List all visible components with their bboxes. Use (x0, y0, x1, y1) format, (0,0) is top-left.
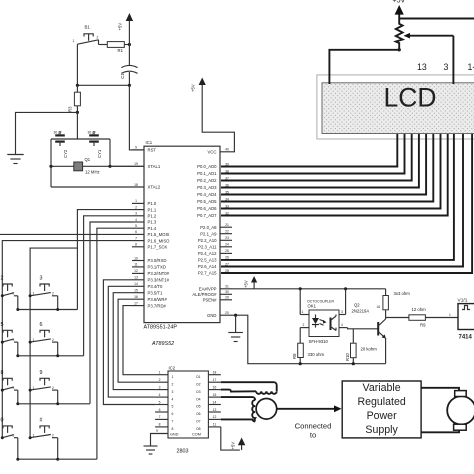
svg-text:P2.1_A9: P2.1_A9 (200, 231, 217, 236)
svg-text:10: 10 (134, 256, 138, 260)
svg-text:14: 14 (213, 400, 217, 404)
svg-text:P1.1: P1.1 (148, 207, 157, 212)
IC1 left pin names (148, 148, 171, 309)
svg-text:1: 1 (33, 433, 35, 437)
svg-text:16: 16 (134, 295, 138, 299)
svg-text:3: 3 (135, 212, 137, 216)
wire R9 to 7414 (425, 317, 458, 319)
wire crystal loop left edge (50, 139, 52, 187)
svg-text:P2.3_A11: P2.3_A11 (198, 245, 217, 250)
svg-text:4: 4 (341, 323, 343, 327)
svg-text:7: 7 (135, 236, 137, 240)
keypad row 2 wire (18, 355, 84, 357)
svg-text:30: 30 (225, 290, 229, 294)
svg-text:9: 9 (40, 370, 43, 376)
svg-text:ALE/PROG#: ALE/PROG# (192, 292, 217, 297)
svg-text:P1.5_MOSI: P1.5_MOSI (148, 232, 170, 237)
svg-text:12: 12 (134, 269, 138, 273)
svg-text:30 pF: 30 pF (88, 131, 96, 135)
svg-text:Variable: Variable (363, 382, 401, 394)
wire P1.3 to keypad row 3 (90, 222, 132, 404)
svg-text:3: 3 (341, 310, 343, 314)
optocoupler OK1 body (307, 299, 339, 344)
svg-text:P0.6_AD6: P0.6_AD6 (197, 206, 217, 211)
resistor R9 12 ohm (409, 307, 426, 328)
button hash (29, 417, 60, 460)
svg-text:XTAL1: XTAL1 (148, 164, 161, 169)
svg-text:OK1: OK1 (308, 304, 317, 309)
wire P1.4 to keypad row 4 (97, 228, 132, 459)
driver IC2 ULN2803 body (168, 366, 208, 455)
svg-text:P3.2/INT0#: P3.2/INT0# (148, 271, 170, 276)
svg-text:5: 5 (172, 405, 174, 409)
svg-text:13: 13 (213, 408, 217, 412)
svg-text:1: 1 (159, 371, 161, 375)
optocoupler pin 3 (339, 289, 346, 315)
wire IC2 out2 to coil L1 right (221, 382, 277, 391)
svg-text:IC1: IC1 (146, 140, 153, 145)
wire P0.4 data bus to LCD (221, 134, 426, 195)
svg-text:11: 11 (213, 423, 217, 427)
switch B1 (73, 25, 99, 45)
wire P0.2 data bus to LCD (221, 134, 412, 181)
wire to ground (16, 112, 78, 154)
svg-text:29: 29 (225, 296, 229, 300)
node crystal right (108, 165, 111, 168)
svg-text:2: 2 (97, 36, 99, 40)
svg-text:31: 31 (225, 285, 229, 289)
node EA rail optocoupler pin1 (299, 287, 302, 290)
svg-text:6: 6 (159, 408, 161, 412)
button 3 (29, 276, 60, 312)
wire Q2 collector to R9 (386, 317, 409, 319)
svg-text:to: to (310, 431, 316, 440)
svg-text:2: 2 (52, 433, 54, 437)
svg-text:0: 0 (1, 417, 4, 423)
wire IC2 out7 to coil L2 bottom (221, 419, 255, 421)
svg-text:Supply: Supply (365, 424, 398, 436)
svg-text:R1: R1 (118, 48, 124, 53)
wire P0.1 data bus to LCD (221, 134, 405, 174)
svg-text:8: 8 (1, 370, 4, 376)
svg-text:1: 1 (33, 292, 35, 296)
svg-text:1: 1 (135, 199, 137, 203)
svg-text:P0.3_AD3: P0.3_AD3 (197, 185, 217, 190)
svg-text:1: 1 (449, 313, 451, 317)
button 9 (29, 370, 60, 406)
crystal Q1 12MHz (74, 157, 100, 175)
IC2 inside pin letters (172, 375, 201, 431)
wire B1 pin2 to R1 (99, 44, 108, 46)
svg-text:7: 7 (172, 420, 174, 424)
svg-text:9: 9 (156, 429, 158, 433)
svg-text:4: 4 (159, 393, 161, 397)
svg-text:P2.4_A12: P2.4_A12 (198, 251, 217, 256)
svg-text:Power: Power (367, 410, 397, 422)
svg-text:P1.0: P1.0 (148, 201, 157, 206)
svg-text:15: 15 (213, 393, 217, 397)
svg-text:O2: O2 (196, 382, 201, 386)
svg-text:R8: R8 (292, 353, 297, 359)
svg-text:2: 2 (13, 386, 15, 390)
svg-text:6: 6 (172, 412, 174, 416)
inductor L1 stepper winding top (256, 391, 277, 394)
wire IC2 out3 to coil L1 left (221, 390, 256, 392)
block Variable Regulated Power Supply (342, 381, 421, 438)
wire GND pin path (232, 315, 386, 364)
node junction R1/C1 (128, 43, 131, 46)
optocoupler phototransistor symbol (331, 315, 337, 331)
wire IC2 out4 to coil L2 top (221, 397, 255, 400)
svg-text:2N2219A: 2N2219A (352, 309, 370, 314)
svg-text:1: 1 (33, 386, 35, 390)
node EA rail optocoupler pin3 (344, 287, 347, 290)
IC 7414 schmitt block V1/1 (458, 298, 474, 341)
svg-text:14: 14 (134, 282, 138, 286)
keypad row 1 wire (18, 309, 78, 311)
svg-text:+5V: +5V (191, 84, 196, 92)
svg-text:O1: O1 (196, 375, 201, 379)
svg-text:11: 11 (134, 263, 138, 267)
svg-text:R3: R3 (68, 106, 73, 112)
node R10 bottom rail (352, 362, 355, 365)
resistor 3x3 ohm (383, 289, 410, 318)
IC2 right pin stubs (208, 375, 220, 427)
motor M2 DC motor body (447, 396, 474, 424)
svg-text:O7: O7 (196, 420, 201, 424)
wire P1.1 to keypad row 1 (77, 210, 132, 310)
inductor L2 stepper winding left (252, 400, 255, 421)
optocoupler pin 2 (300, 323, 309, 343)
wire crystal loop right edge (109, 139, 111, 166)
power +5V arrow top-left (118, 13, 134, 45)
power +5V arrow above potentiometer (393, 0, 406, 19)
motor M1 stepper body (256, 399, 277, 420)
svg-text:8: 8 (159, 423, 161, 427)
capacitor CY1 30pF (88, 131, 102, 159)
svg-text:2803: 2803 (177, 449, 189, 455)
svg-text:5: 5 (135, 224, 137, 228)
svg-text:19: 19 (134, 162, 138, 166)
button 8 (1, 370, 20, 406)
svg-text:P0.1_AD1: P0.1_AD1 (197, 171, 217, 176)
svg-text:16: 16 (377, 305, 381, 309)
IC2 left pin stubs (155, 375, 168, 427)
svg-text:LCD: LCD (383, 83, 436, 113)
svg-text:13: 13 (134, 276, 138, 280)
svg-text:IC2: IC2 (169, 366, 176, 371)
svg-text:25: 25 (225, 249, 229, 253)
svg-text:20: 20 (225, 311, 229, 315)
svg-text:C1: C1 (120, 73, 125, 79)
wire P0.5 data bus to LCD (221, 134, 433, 202)
wire to RST pin (129, 85, 144, 150)
wire P2.0 stub (220, 226, 232, 228)
svg-text:2: 2 (1, 276, 4, 282)
ground GND1 (7, 155, 23, 164)
IC2 left pin numbers (159, 371, 161, 427)
button 0 (1, 417, 20, 460)
ground GND3 (144, 446, 158, 454)
svg-text:7: 7 (159, 415, 161, 419)
wire P3.5 to IC2 pin 3 (113, 293, 155, 390)
svg-text:Regulated: Regulated (357, 396, 405, 408)
svg-text:2: 2 (52, 386, 54, 390)
wire P2.2 stub (220, 239, 232, 241)
wire R3 node to crystal rail (76, 112, 78, 139)
svg-text:21: 21 (225, 223, 229, 227)
svg-text:3: 3 (40, 276, 43, 282)
button 5 (1, 322, 20, 358)
svg-text:P0.7_AD7: P0.7_AD7 (197, 213, 217, 218)
svg-text:P1.6_MISO: P1.6_MISO (148, 238, 171, 243)
svg-text:#: # (40, 417, 43, 423)
wire P2.7 to LCD control (221, 134, 472, 273)
wire supply to motor M2 bottom (421, 430, 459, 432)
svg-text:+5V: +5V (118, 23, 123, 31)
svg-text:2: 2 (52, 292, 54, 296)
LCD module outer frame (317, 75, 474, 139)
wire pot bottom to LCD pin 13 (329, 50, 399, 84)
svg-text:V1/1: V1/1 (458, 298, 468, 304)
button 6 (29, 322, 60, 358)
node R8 bottom rail (299, 362, 302, 365)
svg-text:17: 17 (213, 378, 217, 382)
svg-text:2: 2 (52, 338, 54, 342)
svg-text:5: 5 (159, 400, 161, 404)
svg-text:2: 2 (159, 378, 161, 382)
svg-text:23: 23 (225, 236, 229, 240)
svg-text:COM: COM (192, 433, 201, 437)
svg-text:1: 1 (73, 39, 75, 43)
wire R1 to +5V node (124, 44, 129, 46)
svg-text:P0.0_AD0: P0.0_AD0 (197, 164, 217, 169)
svg-text:P1.3: P1.3 (148, 220, 157, 225)
svg-text:24: 24 (225, 243, 229, 247)
capacitor CY2 30pF (54, 131, 68, 159)
wire P3.7 to IC2 pin 1 (123, 306, 155, 375)
svg-text:1: 1 (172, 375, 174, 379)
svg-text:6: 6 (40, 322, 43, 328)
svg-text:9: 9 (135, 146, 137, 150)
node GND branch (234, 314, 237, 317)
button 2 (1, 276, 20, 312)
wire pot top to right edge (399, 18, 474, 20)
potentiometer RV1 (396, 19, 454, 50)
wire EA/VPP +5V rail (232, 288, 386, 290)
svg-text:12: 12 (213, 415, 217, 419)
wire P1.5 long horizontal (0, 233, 132, 235)
svg-text:+5V: +5V (231, 442, 236, 450)
wire motor M1 to power supply arrow (277, 408, 337, 410)
svg-text:13: 13 (417, 62, 427, 72)
svg-text:3: 3 (444, 62, 449, 72)
svg-text:P3.1/TXD: P3.1/TXD (148, 265, 166, 270)
svg-text:3: 3 (159, 385, 161, 389)
svg-text:8: 8 (172, 427, 174, 431)
wire P2.1 stub (220, 233, 232, 235)
svg-text:1: 1 (302, 310, 304, 314)
wire P3.3 to IC2 pin 5 (103, 280, 155, 405)
motor M2 top brush (455, 391, 467, 397)
svg-text:P1.2: P1.2 (148, 214, 157, 219)
svg-text:P3.4/T0: P3.4/T0 (148, 284, 164, 289)
node dot left (76, 84, 79, 87)
svg-text:P2.2_A10: P2.2_A10 (198, 238, 217, 243)
svg-text:2: 2 (13, 338, 15, 342)
svg-text:VCC: VCC (208, 150, 217, 155)
IC1 left pin stubs (110, 150, 144, 306)
svg-text:O3: O3 (196, 390, 201, 394)
svg-text:Q1: Q1 (85, 157, 91, 162)
wire pot wiper down to LCD pin 3 (452, 36, 454, 84)
svg-text:1: 1 (33, 338, 35, 342)
power +5V arrow at VCC (191, 78, 235, 152)
svg-text:P3.0/RXD: P3.0/RXD (148, 258, 167, 263)
wire B1 pin1 down (76, 44, 78, 85)
svg-text:2: 2 (303, 323, 305, 327)
svg-text:RST: RST (148, 148, 157, 153)
wire reset node horizontal (77, 84, 129, 86)
wire P2.6 to LCD control (221, 134, 463, 267)
optocoupler pin 1 (300, 289, 309, 315)
svg-text:XTAL2: XTAL2 (148, 185, 161, 190)
svg-text:3: 3 (172, 390, 174, 394)
svg-text:O6: O6 (196, 412, 201, 416)
svg-text:20 kohm: 20 kohm (361, 347, 378, 352)
svg-text:R10: R10 (345, 353, 350, 361)
svg-text:P2.7_A15: P2.7_A15 (198, 271, 217, 276)
wire XTAL1 line (51, 165, 144, 167)
svg-text:18: 18 (134, 183, 138, 187)
optocoupler pin 4 (339, 323, 346, 327)
svg-text:CY1: CY1 (97, 149, 102, 158)
svg-text:30 pF: 30 pF (54, 131, 62, 135)
svg-text:1-16: 1-16 (468, 62, 474, 72)
wire P0.7 data bus to LCD (221, 134, 448, 216)
svg-text:6: 6 (135, 230, 137, 234)
crystal ground rail (51, 138, 110, 140)
wire to ground symbol (235, 315, 237, 332)
wire P0.3 data bus to LCD (221, 134, 419, 188)
svg-text:16: 16 (213, 385, 217, 389)
IC1 right pin numbers (225, 148, 229, 315)
node dot right (128, 84, 131, 87)
svg-text:P3.5/T1: P3.5/T1 (148, 290, 164, 295)
IC1 right pin names (192, 150, 217, 318)
svg-text:7414: 7414 (459, 335, 473, 341)
svg-text:P3.3/INT1#: P3.3/INT1# (148, 278, 170, 283)
svg-text:O4: O4 (196, 397, 201, 401)
svg-text:17: 17 (134, 301, 138, 305)
svg-text:P2.5_A13: P2.5_A13 (198, 258, 217, 263)
svg-text:8: 8 (135, 243, 137, 247)
svg-text:GND: GND (170, 433, 179, 437)
keypad row 4 wire (18, 458, 97, 460)
svg-text:P1.7_SCK: P1.7_SCK (148, 245, 168, 250)
svg-text:AT89S52: AT89S52 (151, 341, 174, 347)
wire P1.6 to keypad column 1 (2, 241, 132, 438)
IC2 right pin numbers (213, 371, 217, 427)
IC2 pin 9 GND (151, 429, 169, 446)
svg-text:EA#/VPP: EA#/VPP (199, 287, 217, 292)
wire IC2 out8 to +5V (221, 427, 240, 450)
svg-text:2: 2 (13, 433, 15, 437)
svg-text:4: 4 (172, 397, 174, 401)
wire P0.6 data bus to LCD (221, 134, 441, 209)
svg-text:15: 15 (134, 289, 138, 293)
svg-text:P0.4_AD4: P0.4_AD4 (197, 192, 217, 197)
microcontroller IC1 AT89S52 body (144, 140, 221, 347)
wire pin4 to Q2 base (346, 327, 348, 329)
svg-text:4: 4 (135, 218, 137, 222)
wire P1.2 to keypad row 2 (84, 216, 132, 356)
wire P2.5 to LCD control (221, 134, 454, 260)
capacitor C1 (120, 45, 137, 86)
motor M2 bottom brush (454, 424, 467, 430)
svg-text:12 ohm: 12 ohm (412, 307, 427, 312)
wire P3.4 to IC2 pin 4 (108, 286, 155, 397)
svg-text:O5: O5 (196, 405, 201, 409)
svg-text:R9: R9 (420, 323, 426, 328)
svg-text:P3.6/WR#: P3.6/WR# (148, 297, 168, 302)
svg-text:+5V: +5V (393, 0, 406, 5)
ground GND2 (228, 333, 243, 342)
wire keypad column 2 feed (30, 248, 77, 438)
svg-text:GND: GND (207, 313, 216, 318)
svg-text:+5V: +5V (244, 280, 249, 288)
power +5V arrow at EA (244, 276, 258, 289)
IC1 left pin numbers (134, 146, 138, 306)
resistor R8 330 ohm (292, 343, 324, 364)
wire P2.3 stub (220, 246, 232, 248)
power +5V arrow at motor common (231, 438, 246, 451)
optocoupler LED symbol (312, 315, 327, 328)
svg-text:PSEN#: PSEN# (203, 298, 218, 303)
svg-text:P2.6_A14: P2.6_A14 (198, 264, 217, 269)
svg-text:22: 22 (225, 230, 229, 234)
resistor R3 (68, 85, 81, 112)
wire P2.4 stub (220, 252, 232, 254)
svg-text:CY2: CY2 (63, 149, 68, 158)
resistor R1 (107, 42, 124, 53)
IC1 right pin stubs (220, 152, 232, 315)
resistor R10 20 kohm (345, 329, 377, 364)
keypad row 3 wire (18, 403, 90, 405)
svg-text:B1: B1 (85, 25, 91, 30)
svg-text:3x3 ohm: 3x3 ohm (394, 291, 411, 296)
svg-text:18: 18 (213, 371, 217, 375)
transistor Q2 2N2219A (352, 303, 386, 364)
node R3 bottom (76, 111, 79, 114)
svg-text:5: 5 (1, 322, 4, 328)
wire supply to motor M2 top (421, 388, 459, 391)
wire XTAL2 line (51, 186, 144, 188)
svg-text:40: 40 (225, 148, 229, 152)
svg-text:P1.4: P1.4 (148, 226, 157, 231)
svg-text:SFH-9310: SFH-9310 (309, 339, 329, 344)
svg-text:Connected: Connected (295, 422, 332, 431)
svg-text:P0.2_AD2: P0.2_AD2 (197, 178, 217, 183)
node pot bottom (398, 48, 401, 51)
svg-text:2: 2 (172, 382, 174, 386)
svg-text:2: 2 (135, 205, 137, 209)
svg-text:2: 2 (13, 292, 15, 296)
svg-text:P0.5_AD5: P0.5_AD5 (197, 199, 217, 204)
svg-text:12 MHz: 12 MHz (85, 170, 100, 175)
svg-text:P2.0_A8: P2.0_A8 (200, 225, 217, 230)
svg-text:O8: O8 (196, 427, 201, 431)
